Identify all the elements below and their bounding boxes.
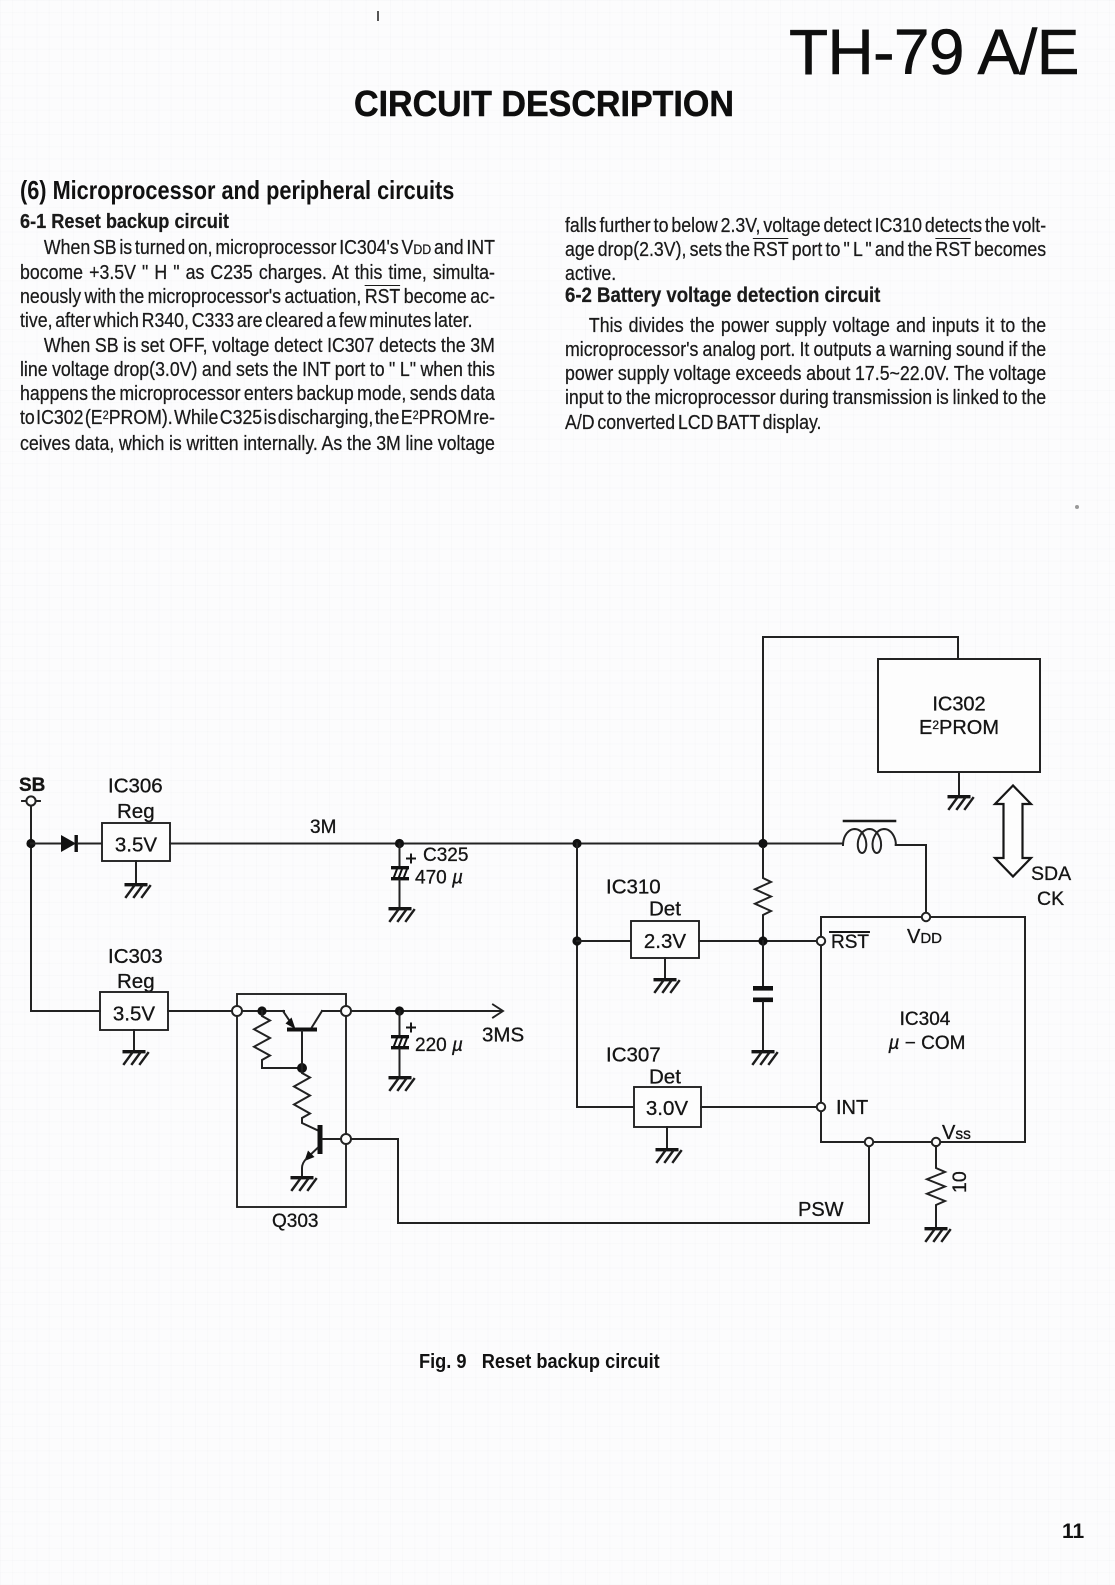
microcomputer IC304 box [821, 917, 1025, 1142]
pin INT [817, 1103, 825, 1111]
page number [1062, 1521, 1084, 1542]
wire IC303 to ground [133, 1030, 135, 1051]
svg-text:E2PROM: E2PROM [919, 717, 999, 739]
label RST (overlined) [830, 932, 869, 953]
ground (IC310) [654, 978, 680, 992]
svg-text:3.0V: 3.0V [646, 1097, 688, 1120]
pin circle Q303 right [341, 1006, 351, 1016]
wire SB vertical rail [30, 806, 32, 1011]
wire C220 stub [399, 1011, 401, 1035]
regulator IC303 box [100, 992, 168, 1030]
wire cap stub x763 [762, 941, 764, 986]
node junction rail x763 [758, 839, 767, 848]
detector IC310 box [631, 921, 699, 958]
pin VDD [922, 913, 930, 921]
regulator IC306 box [102, 823, 170, 861]
svg-text:µ − COM: µ − COM [888, 1033, 966, 1054]
svg-text:INT: INT [836, 1097, 868, 1119]
node junction on SB rail [26, 839, 35, 848]
pin RST [817, 937, 825, 945]
detector IC307 box [634, 1087, 701, 1127]
svg-text:IC307: IC307 [606, 1044, 661, 1067]
ground (IC303) [123, 1050, 149, 1064]
capacitor (x763) [753, 986, 773, 1050]
wire rail x577 vertical [577, 844, 634, 1108]
svg-text:10: 10 [949, 1171, 971, 1193]
svg-text:SB: SB [19, 775, 45, 796]
ground (C325) [389, 907, 415, 921]
svg-text:SDA: SDA [1031, 863, 1071, 885]
wire IC303 to Q303 box [168, 1010, 233, 1012]
ground (IC302) [948, 795, 974, 809]
transistor Q303b (NPN) [302, 1120, 341, 1176]
resistor Rb [294, 1068, 310, 1120]
ground (IC306) [125, 883, 151, 897]
resistor 10 (Vss) [927, 1146, 945, 1228]
wire IC306 to ground [135, 861, 137, 884]
svg-text:IC304: IC304 [900, 1009, 951, 1030]
diode D [61, 835, 102, 852]
svg-text:IC302: IC302 [932, 694, 985, 716]
pin circle Q303 base out [341, 1134, 351, 1144]
figure caption [419, 1352, 660, 1372]
node junction C220 tap [395, 1006, 404, 1015]
svg-text:CK: CK [1037, 888, 1064, 910]
node junction rail x577 [572, 839, 581, 848]
svg-text:C325: C325 [423, 845, 468, 866]
svg-text:Q303: Q303 [272, 1211, 318, 1232]
wire 3.0V to INT pin [701, 1106, 817, 1108]
svg-text:Det: Det [649, 1066, 681, 1089]
ground (cap x763) [752, 1050, 778, 1064]
scan tick [377, 11, 379, 21]
inductor coil [843, 821, 896, 853]
wire PSW net [351, 1139, 869, 1223]
svg-text:2.3V: 2.3V [644, 930, 686, 953]
wire top runner to IC302 [763, 637, 958, 844]
wire C325 stub [399, 844, 401, 867]
svg-text:Reg: Reg [117, 800, 155, 823]
wire 3MS run [351, 1010, 502, 1012]
arrow 3MS [493, 1005, 503, 1018]
node junction Ra top [257, 1006, 266, 1015]
svg-text:RST: RST [831, 932, 869, 953]
capacitor C325 [391, 855, 415, 908]
wire Q303 inner top [242, 1010, 284, 1012]
wire IC307 to ground [666, 1127, 668, 1149]
svg-text:Reg: Reg [117, 970, 155, 993]
svg-text:220 µ: 220 µ [415, 1035, 463, 1056]
transistor Q303a (PNP) [283, 1011, 341, 1068]
resistor R (x763) [755, 848, 771, 941]
node junction R bottom [758, 936, 767, 945]
transistor block Q303 box [237, 994, 346, 1207]
arrow SDA/CK double [995, 786, 1031, 877]
capacitor 220u [391, 1024, 415, 1077]
svg-text:IC306: IC306 [108, 775, 163, 798]
node junction base Q303a [297, 1063, 307, 1073]
svg-text:PSW: PSW [798, 1199, 844, 1221]
wire to diode [31, 843, 61, 845]
resistor Ra [254, 1011, 297, 1068]
wire 3M line [170, 843, 843, 845]
ground (Vss resistor) [925, 1227, 951, 1241]
wire SB rail to IC303 [31, 1010, 100, 1012]
ground (Q303 emitter) [291, 1176, 317, 1190]
wire 2.3V to RST pin [699, 940, 817, 942]
eeprom IC302 box [878, 659, 1040, 772]
manual model header [789, 20, 1079, 84]
svg-text:IC310: IC310 [606, 876, 661, 899]
wire x577 to 2.3V box [577, 940, 631, 942]
ground (220u) [389, 1076, 415, 1090]
svg-text:IC303: IC303 [108, 945, 163, 968]
svg-text:Vss: Vss [942, 1122, 971, 1144]
wire coil to VDD [896, 845, 926, 913]
svg-text:3.5V: 3.5V [113, 1003, 155, 1026]
svg-text:3.5V: 3.5V [115, 834, 157, 857]
svg-text:470 µ: 470 µ [415, 868, 463, 889]
svg-text:3MS: 3MS [482, 1024, 524, 1047]
ground (IC307) [656, 1148, 682, 1162]
svg-text:Det: Det [649, 898, 681, 921]
node SB terminal [22, 796, 40, 805]
wire IC310 to ground [664, 958, 666, 979]
wire IC302 to ground [958, 772, 960, 796]
pin PSW [865, 1138, 873, 1146]
node junction C325 tap [395, 839, 404, 848]
section heading [20, 177, 454, 203]
pin Vss [932, 1138, 940, 1146]
svg-text:3M: 3M [310, 817, 336, 838]
node junction x577 RST tap [572, 936, 581, 945]
page title [354, 86, 734, 122]
svg-text:VDD: VDD [907, 926, 942, 948]
pin circle Q303 left [232, 1006, 242, 1016]
